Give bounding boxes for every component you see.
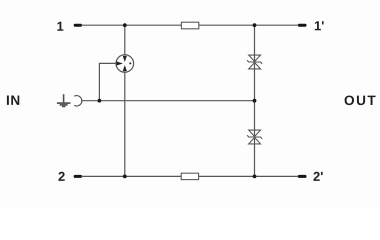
terminal bar 1 (top left) (74, 24, 82, 27)
junction dot middle line / GDT branch (98, 99, 102, 103)
suppressor diode (bottom TVS) upper triangle (249, 130, 261, 136)
suppressor diode (top TVS) lower triangle (249, 63, 261, 69)
junction dot line2 / GDT branch (123, 175, 127, 179)
ground symbol bar 2 (60, 104, 68, 106)
ground coupling arc (74, 96, 82, 106)
ground symbol bar 1 (57, 102, 71, 104)
ground symbol bar 3 (62, 106, 66, 108)
svg-text:2': 2' (313, 169, 323, 184)
wire right vertical from line 1 to line 2 (254, 25, 256, 176)
gas discharge tube top arrow (123, 56, 127, 62)
svg-text:2: 2 (58, 169, 65, 184)
gas discharge tube left arrow (117, 61, 123, 65)
resistor (top, in line 1) (181, 22, 198, 29)
svg-text:OUT: OUT (344, 93, 377, 108)
terminal bar 2 (bottom left) (74, 175, 82, 178)
gas discharge tube (3-electrode arrester) circle (116, 55, 134, 73)
gas discharge tube right electrode dot (129, 62, 131, 64)
suppressor diode (bottom TVS) center bar with ticks (247, 135, 262, 139)
suppressor diode (top TVS) center bar with ticks (247, 60, 262, 64)
resistor (bottom, in line 2) (181, 173, 198, 179)
wire from gas discharge tube left to corner (99, 62, 116, 64)
wire corner down to middle line (98, 63, 100, 101)
terminal bar 2' (bottom right) (298, 175, 307, 178)
wire vertical from gas discharge tube down to line 2 (124, 72, 126, 176)
junction dot middle line / TVS branch (253, 99, 257, 103)
junction dot line2 / TVS branch (253, 175, 257, 179)
terminal bar 1' (top right) (298, 24, 307, 27)
suppressor diode (bottom TVS) lower triangle (249, 138, 261, 144)
svg-text:1: 1 (56, 19, 63, 34)
ground symbol (earth) stem (63, 94, 65, 102)
wire vertical from line 1 down to gas discharge tube (124, 25, 126, 55)
suppressor diode (top TVS) upper triangle (249, 55, 261, 61)
wire bottom line 2 to 2' (81, 175, 299, 177)
wire middle line from arc to right vertical (81, 100, 255, 102)
junction dot line1 / TVS branch (253, 23, 257, 27)
wire top line 1 to 1' (81, 24, 299, 26)
svg-text:1': 1' (314, 18, 324, 33)
junction dot line1 / GDT branch (123, 23, 127, 27)
svg-text:IN: IN (6, 93, 21, 108)
gas discharge tube bottom arrow (123, 65, 127, 71)
